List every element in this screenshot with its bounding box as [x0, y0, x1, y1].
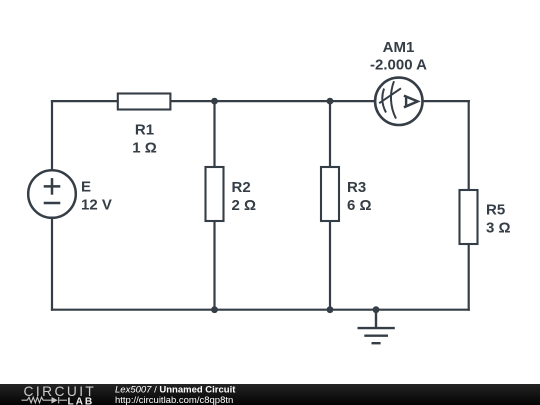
- svg-text:12 V: 12 V: [81, 197, 112, 214]
- svg-text:R1: R1: [135, 121, 154, 138]
- svg-text:http://circuitlab.com/c8qp8tn: http://circuitlab.com/c8qp8tn: [115, 395, 233, 405]
- svg-text:-2.000 A: -2.000 A: [370, 56, 427, 73]
- svg-text:LAB: LAB: [68, 396, 95, 405]
- svg-text:6 Ω: 6 Ω: [347, 197, 372, 214]
- svg-text:R2: R2: [232, 179, 251, 196]
- svg-text:E: E: [81, 179, 91, 196]
- svg-text:AM1: AM1: [383, 39, 415, 56]
- svg-text:2 Ω: 2 Ω: [232, 197, 257, 214]
- svg-text:R5: R5: [486, 202, 505, 219]
- svg-text:3 Ω: 3 Ω: [486, 220, 511, 237]
- svg-text:1 Ω: 1 Ω: [132, 139, 157, 156]
- svg-text:Lex5007 / Unnamed Circuit: Lex5007 / Unnamed Circuit: [115, 385, 236, 396]
- svg-text:R3: R3: [347, 179, 366, 196]
